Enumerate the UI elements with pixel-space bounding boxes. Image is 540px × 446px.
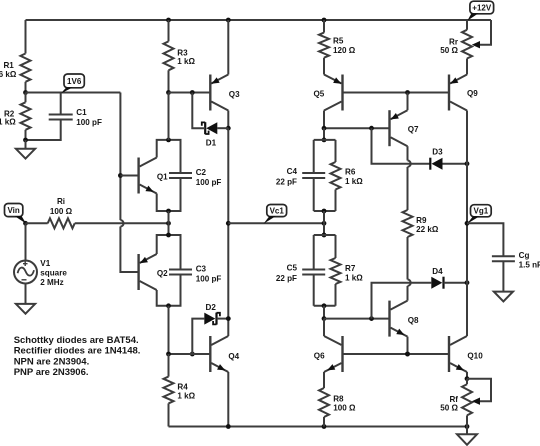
transistor Q2 bar bbox=[137, 254, 139, 290]
svg-text:Q3: Q3 bbox=[229, 90, 240, 99]
node Q7 emitter junction bbox=[405, 90, 410, 95]
label Q2 bbox=[157, 269, 168, 278]
label R5 bbox=[333, 36, 344, 45]
label R1 bbox=[3, 61, 14, 70]
svg-text:D1: D1 bbox=[206, 139, 217, 148]
wire box C4 stub bbox=[323, 128, 325, 140]
node Ri junction bbox=[166, 221, 171, 226]
wire Q6 collector up bbox=[323, 319, 325, 336]
label R9 bbox=[416, 216, 427, 225]
capacitor C2 bbox=[169, 173, 192, 178]
resistor Rf bbox=[462, 384, 472, 415]
svg-text:1.5 nF: 1.5 nF bbox=[519, 261, 540, 270]
node C5 box bottom junction bbox=[322, 303, 327, 308]
label Q6 bbox=[314, 352, 325, 361]
svg-text:NPN are 2N3904.: NPN are 2N3904. bbox=[14, 356, 90, 367]
wire Q8 base row bbox=[324, 318, 390, 320]
wire C1 bottom bbox=[26, 120, 61, 141]
svg-text:Schottky diodes are BAT54.: Schottky diodes are BAT54. bbox=[14, 335, 139, 346]
node Vg1 junction bbox=[465, 221, 470, 226]
svg-text:V1: V1 bbox=[40, 259, 50, 268]
node rail right junction bbox=[465, 424, 470, 429]
label C3 value bbox=[196, 274, 222, 283]
source V1 circle bbox=[14, 261, 37, 284]
svg-text:D3: D3 bbox=[432, 148, 443, 157]
net label +12V bbox=[470, 1, 494, 14]
label Ri value bbox=[50, 207, 73, 216]
resistor R7 bbox=[331, 258, 341, 284]
note rectifier bbox=[14, 346, 141, 357]
junction on rail at Q3 emitter bbox=[226, 18, 231, 23]
svg-text:1 kΩ: 1 kΩ bbox=[177, 57, 195, 66]
svg-text:C1: C1 bbox=[76, 108, 87, 117]
svg-text:2 MHz: 2 MHz bbox=[40, 278, 63, 287]
label Cg bbox=[519, 251, 530, 260]
transistor Q5 collector bbox=[324, 102, 342, 111]
node Q1 box top junction bbox=[166, 138, 171, 143]
label Rr bbox=[449, 38, 459, 47]
wire Q9 collector column bbox=[466, 111, 468, 337]
svg-text:50 Ω: 50 Ω bbox=[440, 46, 458, 55]
transistor Q1 collector bbox=[140, 158, 157, 167]
net label Vg1 bbox=[471, 205, 492, 217]
transistor Q10 emitter bbox=[450, 363, 467, 372]
wire C5 box top bbox=[314, 234, 336, 236]
transistor Q3 collector bbox=[211, 102, 228, 111]
wire R2 top bbox=[25, 93, 27, 103]
wire C4 box bottom bbox=[314, 210, 336, 212]
node D2 cathode junction bbox=[226, 316, 231, 321]
label Q7 bbox=[408, 125, 419, 134]
diode D2 triangle bbox=[204, 313, 215, 325]
label C1 bbox=[76, 108, 87, 117]
node Q4 emitter on rail bbox=[226, 424, 231, 429]
wire Q5 base to Q9 base bbox=[343, 92, 450, 94]
node D2 branch on Q4 base bbox=[190, 352, 195, 357]
wire R7 stub top bbox=[335, 235, 337, 258]
wire Cg bottom bbox=[502, 261, 504, 291]
wire R1 bottom bbox=[25, 82, 27, 93]
wire R4 top bbox=[168, 354, 170, 377]
note npn bbox=[14, 356, 90, 367]
transistor Q1 emitter bbox=[140, 185, 157, 194]
label C2 value bbox=[196, 178, 222, 187]
resistor Rr bbox=[462, 30, 472, 59]
wire Rr wiper loop bbox=[475, 20, 491, 45]
svg-text:1 kΩ: 1 kΩ bbox=[345, 177, 363, 186]
wire D4 cathode bbox=[444, 282, 468, 284]
svg-text:D2: D2 bbox=[206, 303, 217, 312]
wire Q2 box bottom bbox=[157, 275, 181, 306]
wire D4 branch bbox=[372, 283, 432, 319]
svg-text:Q7: Q7 bbox=[408, 125, 419, 134]
wire Vin to Ri bbox=[26, 222, 48, 224]
label C1 value bbox=[76, 118, 102, 127]
transistor Q8 bar bbox=[388, 301, 390, 337]
transistor Q9 bar bbox=[448, 75, 450, 111]
svg-text:100 Ω: 100 Ω bbox=[50, 207, 73, 216]
label D2 bbox=[206, 303, 217, 312]
diode D2 schottky hooks bbox=[213, 313, 220, 325]
wire Q10 emitter down bbox=[466, 372, 468, 379]
wire Q1 box bottom bbox=[157, 178, 181, 211]
capacitor Cg bbox=[492, 256, 515, 261]
wire R3 bottom bbox=[168, 70, 170, 92]
transistor Q9 collector bbox=[450, 102, 467, 111]
svg-text:1V6: 1V6 bbox=[67, 77, 82, 86]
label C5 value bbox=[276, 274, 297, 283]
svg-text:Vc1: Vc1 bbox=[270, 206, 285, 215]
wire Q4 emitter down bbox=[227, 372, 229, 427]
node D3 branch junction bbox=[369, 126, 374, 131]
label R9 value bbox=[416, 225, 439, 234]
transistor Q1 bar bbox=[137, 158, 139, 194]
label V1 bbox=[40, 259, 50, 268]
node Q4 base junction bbox=[166, 352, 171, 357]
node R1-R2 junction bbox=[23, 90, 28, 95]
node Rf wiper junction bbox=[465, 376, 470, 381]
transistor Q4 emitter bbox=[211, 363, 228, 372]
wire D2 cathode bbox=[217, 318, 229, 320]
node C4 box top junction bbox=[322, 138, 327, 143]
wire Q1 base bbox=[120, 175, 138, 177]
node R8 on rail bbox=[322, 424, 327, 429]
svg-text:R5: R5 bbox=[333, 36, 344, 45]
label R2 bbox=[4, 109, 15, 118]
svg-text:Vg1: Vg1 bbox=[474, 207, 489, 216]
node D1 branch on Q3 base bbox=[190, 90, 195, 95]
label R4 bbox=[177, 382, 188, 391]
node D3 anode junction bbox=[465, 161, 470, 166]
wire C4 box to Vc1 bbox=[323, 211, 325, 223]
node Q1 box bottom junction bbox=[166, 209, 171, 214]
svg-text:100 pF: 100 pF bbox=[196, 274, 222, 283]
wire R1 top bbox=[25, 20, 27, 54]
label R5 value bbox=[333, 46, 356, 55]
wire ground rail bbox=[169, 426, 468, 428]
wire Q8 emitter down bbox=[407, 337, 409, 354]
svg-text:+12V: +12V bbox=[472, 3, 492, 12]
svg-text:R8: R8 bbox=[333, 394, 344, 403]
wire Q7 emitter up bbox=[407, 93, 409, 111]
svg-text:1 kΩ: 1 kΩ bbox=[177, 391, 195, 400]
resistor R2 bbox=[21, 102, 31, 130]
svg-text:22 pF: 22 pF bbox=[276, 274, 297, 283]
diode D3 triangle bbox=[432, 158, 443, 170]
wire Vc1 to C5 box bbox=[323, 223, 325, 235]
svg-text:R1: R1 bbox=[3, 61, 14, 70]
label Q1 bbox=[157, 173, 168, 182]
wire 1V6 node bbox=[26, 92, 121, 94]
wire Rf wiper loop bbox=[467, 379, 491, 402]
wire C1 top bbox=[60, 93, 62, 115]
svg-text:C3: C3 bbox=[196, 265, 207, 274]
svg-text:R3: R3 bbox=[177, 48, 188, 57]
note pnp bbox=[14, 367, 89, 378]
svg-text:Ri: Ri bbox=[57, 197, 65, 206]
wire Rr top bbox=[466, 20, 468, 30]
ground V1 bbox=[16, 304, 35, 314]
transistor Q6 emitter bbox=[324, 363, 342, 372]
node C5 box top junction bbox=[322, 233, 327, 238]
svg-text:Q2: Q2 bbox=[157, 269, 168, 278]
node Vc1 left junction bbox=[226, 221, 231, 226]
svg-text:Q6: Q6 bbox=[314, 352, 325, 361]
resistor R4 bbox=[164, 377, 174, 404]
transistor Q7 emitter bbox=[391, 110, 408, 119]
label R4 value bbox=[177, 391, 195, 400]
label R8 bbox=[333, 394, 344, 403]
resistor R6 bbox=[331, 162, 341, 190]
ground R2 bbox=[16, 140, 35, 159]
source V1 sine bbox=[18, 268, 34, 276]
svg-text:D4: D4 bbox=[432, 267, 443, 276]
label R8 value bbox=[333, 404, 356, 413]
label R7 value bbox=[345, 274, 363, 283]
wire Ri to Q1Q2 emitters bbox=[75, 222, 169, 224]
svg-text:Q8: Q8 bbox=[408, 316, 419, 325]
label R3 value bbox=[177, 57, 195, 66]
svg-text:50 Ω: 50 Ω bbox=[440, 404, 458, 413]
wire C5 left bottom bbox=[313, 275, 315, 306]
node Q2 box top junction bbox=[166, 233, 171, 238]
svg-text:R7: R7 bbox=[345, 264, 356, 273]
diode D2 cathode bar bbox=[215, 313, 217, 325]
capacitor C1 bbox=[49, 115, 73, 120]
resistor R8 bbox=[319, 388, 329, 417]
wire R3 node to Q1 collector bbox=[168, 93, 170, 140]
wire Q1 box top bbox=[157, 140, 181, 173]
svg-text:Q1: Q1 bbox=[157, 173, 168, 182]
node R3 bottom junction bbox=[166, 90, 171, 95]
label C4 bbox=[287, 167, 298, 176]
label Q5 bbox=[314, 90, 325, 99]
label V1 square bbox=[40, 269, 67, 278]
wire D3 anode bbox=[443, 163, 468, 165]
resistor Ri bbox=[48, 218, 75, 228]
junction on rail at R3 bbox=[166, 18, 171, 23]
transistor Q8 emitter bbox=[391, 328, 408, 337]
wire +12V rail bbox=[26, 19, 492, 21]
wire R2 bottom bbox=[25, 130, 27, 140]
wire Q3 collector down bbox=[227, 111, 229, 129]
diode D3 cathode bar bbox=[429, 158, 431, 170]
wire R9 to Q8 collector bbox=[408, 237, 411, 301]
wire Q5 collector down bbox=[323, 111, 325, 129]
wire C4 left bottom bbox=[313, 178, 315, 211]
svg-text:100 pF: 100 pF bbox=[196, 178, 222, 187]
svg-text:1 kΩ: 1 kΩ bbox=[0, 118, 16, 127]
label R6 bbox=[345, 168, 356, 177]
label Cg value bbox=[519, 261, 540, 270]
node Vc1 right junction bbox=[322, 221, 327, 226]
label R7 bbox=[345, 264, 356, 273]
wire C4 left top bbox=[313, 140, 315, 173]
label Q3 bbox=[229, 90, 240, 99]
svg-text:Q4: Q4 bbox=[228, 352, 239, 361]
wire R5 top bbox=[323, 20, 325, 33]
label V1 freq bbox=[40, 278, 63, 287]
net label Vc1 pointer bbox=[264, 216, 277, 224]
wire Rf top bbox=[466, 379, 468, 385]
node Q10 base junction bbox=[405, 352, 410, 357]
capacitor C3 bbox=[169, 270, 192, 275]
node Q8 emitter junction bbox=[405, 352, 410, 357]
resistor R5 bbox=[319, 33, 329, 58]
transistor Q3 bar bbox=[209, 75, 211, 111]
svg-text:100 Ω: 100 Ω bbox=[333, 404, 356, 413]
node C4 box top branch bbox=[322, 126, 327, 131]
node D1 anode junction bbox=[226, 126, 231, 131]
net label +12V pointer bbox=[467, 13, 478, 21]
label D3 bbox=[432, 148, 443, 157]
label Ri bbox=[57, 197, 65, 206]
label C2 bbox=[196, 168, 207, 177]
transistor Q8 collector bbox=[391, 301, 408, 310]
svg-text:Rectifier diodes are 1N4148.: Rectifier diodes are 1N4148. bbox=[14, 346, 141, 357]
wire Q2 collector to Q4 base bbox=[168, 306, 170, 354]
label Rf bbox=[449, 395, 458, 404]
svg-text:R4: R4 bbox=[177, 382, 188, 391]
node Q6 collector branch bbox=[322, 316, 327, 321]
svg-text:100 pF: 100 pF bbox=[76, 118, 102, 127]
label C4 value bbox=[276, 178, 297, 187]
wire R3 to Q3 base bbox=[169, 92, 211, 94]
source V1 plus bbox=[23, 262, 28, 267]
transistor Q4 collector bbox=[211, 336, 228, 345]
trimmer Rr wiper arrow bbox=[472, 41, 480, 48]
capacitor C4 bbox=[302, 173, 325, 178]
wire R8 bottom bbox=[323, 417, 325, 427]
wire Vc1 bbox=[228, 222, 324, 224]
node Q2 box bottom junction bbox=[166, 303, 171, 308]
wire C5 box to Q8 base row bbox=[323, 306, 325, 319]
resistor R3 bbox=[164, 41, 174, 70]
label D1 bbox=[206, 139, 217, 148]
node C4 box bottom junction bbox=[322, 209, 327, 214]
wire Q5 collector row bbox=[324, 127, 390, 129]
junction on rail at R5 bbox=[322, 18, 327, 23]
svg-text:Q10: Q10 bbox=[467, 352, 483, 361]
net label Vc1 bbox=[267, 205, 287, 217]
wire R5 bottom bbox=[323, 58, 325, 75]
resistor R1 bbox=[21, 54, 31, 82]
transistor Q2 collector bbox=[140, 281, 157, 290]
node Q1 base bbox=[118, 173, 123, 178]
transistor Q9 emitter bbox=[450, 75, 467, 84]
svg-text:22 pF: 22 pF bbox=[276, 178, 297, 187]
net label 1V6 pointer bbox=[61, 87, 73, 93]
diode D4 triangle bbox=[431, 277, 442, 289]
wire R7 stub bottom bbox=[335, 284, 337, 306]
wire C4 box top bbox=[314, 139, 336, 141]
label R3 bbox=[177, 48, 188, 57]
net label Vg1 pointer bbox=[467, 216, 480, 224]
label R1 value bbox=[0, 70, 17, 79]
label Q9 bbox=[467, 89, 478, 98]
wire Q1 emitter to Ri node bbox=[168, 211, 170, 235]
transistor Q4 bar bbox=[209, 336, 211, 372]
wire Rf bottom bbox=[466, 415, 468, 426]
diode D1 cathode bar bbox=[204, 122, 206, 134]
transistor Q2 emitter bbox=[140, 254, 157, 263]
wire R4 bottom bbox=[168, 403, 170, 426]
net label Vin bbox=[5, 204, 23, 217]
svg-text:C4: C4 bbox=[287, 167, 298, 176]
net label Vin pointer bbox=[15, 216, 27, 224]
wire Q10 base bbox=[408, 353, 450, 355]
label Rf value bbox=[440, 404, 458, 413]
svg-text:1 kΩ: 1 kΩ bbox=[345, 274, 363, 283]
ground Cg bbox=[494, 292, 513, 302]
wire R3 top bbox=[168, 20, 170, 41]
wire Q6 base to Q10 base bbox=[343, 353, 450, 355]
transistor Q6 bar bbox=[341, 336, 343, 372]
diode D1 schottky hooks bbox=[202, 122, 209, 134]
node D4 branch junction bbox=[369, 316, 374, 321]
wire Q4 base bbox=[169, 353, 211, 355]
wire Vg1 to Cg bbox=[467, 223, 503, 256]
wire D2 anode branch bbox=[192, 319, 204, 354]
svg-text:R6: R6 bbox=[345, 168, 356, 177]
svg-text:Q9: Q9 bbox=[467, 89, 478, 98]
svg-text:120 Ω: 120 Ω bbox=[333, 46, 356, 55]
resistor R9 bbox=[403, 210, 413, 237]
label D4 bbox=[432, 267, 443, 276]
wire C5 box bottom bbox=[314, 305, 336, 307]
wire D1 cathode to Q3 base bbox=[192, 93, 205, 129]
capacitor C5 bbox=[302, 270, 325, 275]
wire D1 anode bbox=[217, 127, 228, 129]
wire Rr bottom bbox=[466, 59, 468, 75]
trimmer Rf wiper arrow bbox=[472, 398, 480, 405]
label Rr value bbox=[440, 46, 458, 55]
svg-text:22 kΩ: 22 kΩ bbox=[416, 225, 439, 234]
svg-text:Cg: Cg bbox=[519, 251, 530, 260]
source V1 minus bbox=[22, 279, 27, 281]
transistor Q7 bar bbox=[388, 110, 390, 146]
wire 1V6 to Q1/Q2 bases bbox=[120, 93, 138, 273]
transistor Q6 collector bbox=[324, 336, 342, 345]
label C3 bbox=[196, 265, 207, 274]
transistor Q7 collector bbox=[391, 137, 408, 146]
node Vin junction bbox=[23, 221, 28, 226]
wire R6 stub bottom bbox=[335, 190, 337, 212]
wire Q7 collector to R9 bbox=[408, 146, 411, 210]
wire V1 top bbox=[25, 223, 27, 260]
wire Q2 box top bbox=[157, 235, 181, 270]
wire Q3 emitter to rail bbox=[227, 20, 229, 75]
svg-text:6 kΩ: 6 kΩ bbox=[0, 70, 17, 79]
wire D3 branch bbox=[372, 128, 431, 164]
wire R6 stub top bbox=[335, 140, 337, 162]
label R2 value bbox=[0, 118, 16, 127]
wire Q3 collector column bbox=[227, 128, 229, 336]
net label 1V6 bbox=[64, 74, 84, 88]
wire C5 left top bbox=[313, 235, 315, 270]
wire V1 bottom bbox=[25, 284, 27, 304]
diode D4 cathode bar bbox=[442, 277, 444, 289]
svg-text:R9: R9 bbox=[416, 216, 427, 225]
svg-text:square: square bbox=[40, 269, 67, 278]
label C5 bbox=[287, 264, 298, 273]
svg-text:Vin: Vin bbox=[7, 206, 19, 215]
node R2-C1 junction bbox=[23, 138, 28, 143]
transistor Q5 emitter bbox=[324, 75, 342, 84]
svg-text:C2: C2 bbox=[196, 168, 207, 177]
label Q4 bbox=[228, 352, 239, 361]
svg-text:PNP are 2N3906.: PNP are 2N3906. bbox=[14, 367, 89, 378]
